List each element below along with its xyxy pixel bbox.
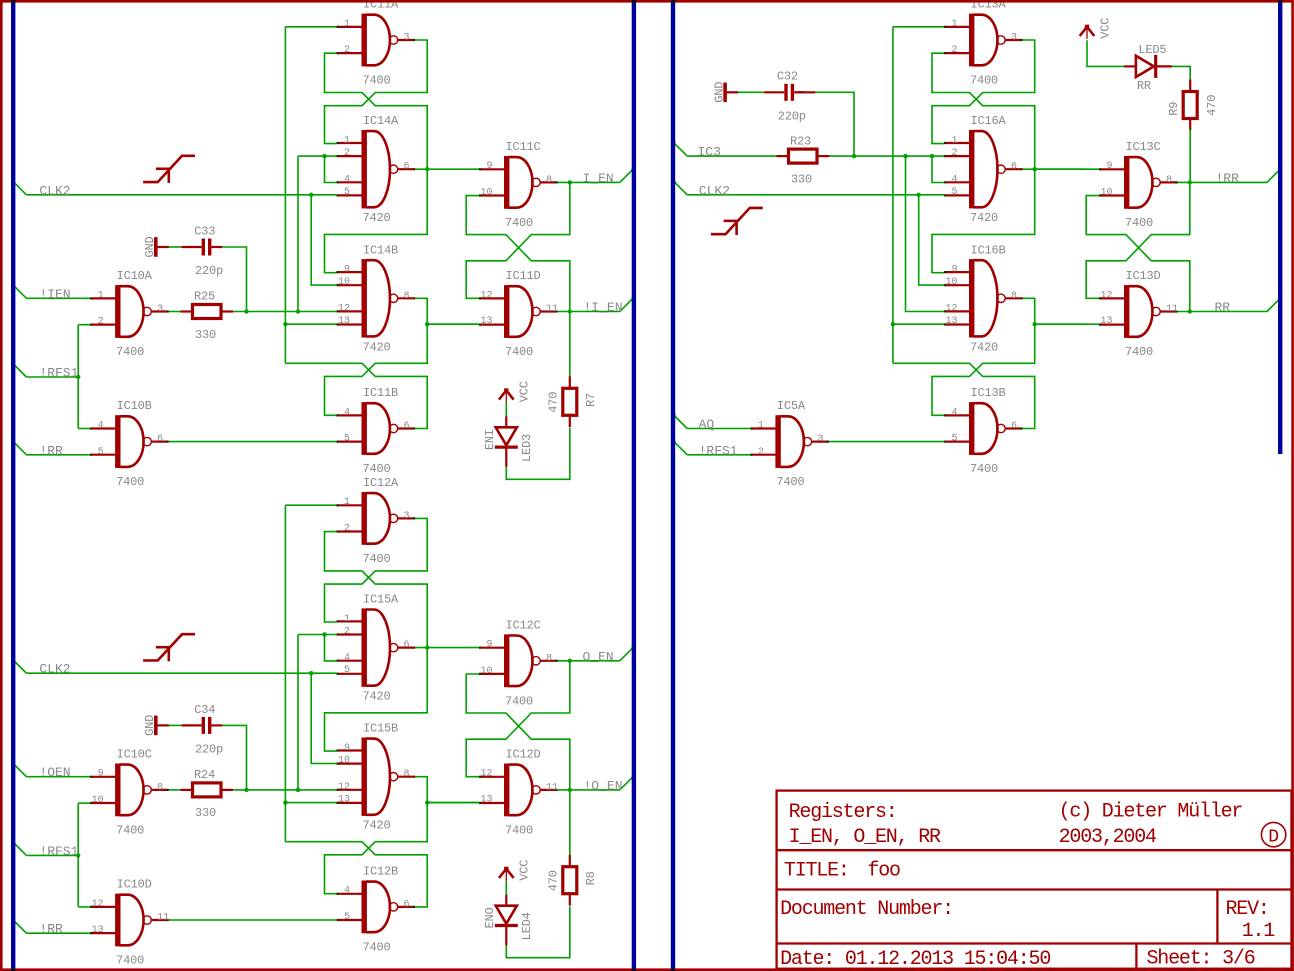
wire net !O_EN xyxy=(557,789,620,791)
svg-text:5: 5 xyxy=(344,665,350,676)
wire net !RFS1 right xyxy=(687,454,751,456)
svg-text:13: 13 xyxy=(480,795,492,806)
svg-text:IC16A: IC16A xyxy=(971,114,1007,128)
svg-text:IC12A: IC12A xyxy=(363,476,399,490)
wire net CLK2 xyxy=(26,672,336,674)
junction xyxy=(76,375,80,379)
svg-text:7420: 7420 xyxy=(363,690,391,704)
junction xyxy=(283,800,287,804)
svg-text:!RR: !RR xyxy=(39,443,63,458)
svg-text:IC10B: IC10B xyxy=(117,399,152,413)
junction xyxy=(568,788,572,792)
junction xyxy=(930,154,934,158)
wire net IC3 xyxy=(687,155,776,157)
NAND gate IC12A xyxy=(337,492,416,545)
svg-text:ENI: ENI xyxy=(483,429,497,450)
svg-text:9: 9 xyxy=(486,640,492,651)
wire pin10 cross IC11C xyxy=(466,196,570,312)
svg-text:Sheet: 3/6: Sheet: 3/6 xyxy=(1147,947,1255,970)
junction xyxy=(903,154,907,158)
resistor R9 xyxy=(1183,80,1197,131)
junction xyxy=(1188,180,1192,184)
junction xyxy=(1188,309,1192,313)
resistor R7 xyxy=(563,376,577,427)
svg-text:4: 4 xyxy=(951,407,957,418)
svg-text:2: 2 xyxy=(758,447,764,458)
bus-frame overlaps xyxy=(11,0,15,2)
svg-text:IC5A: IC5A xyxy=(777,399,806,413)
svg-text:2: 2 xyxy=(344,524,350,535)
wire net !RR xyxy=(26,454,90,456)
wire cross X3 d xyxy=(325,324,428,415)
svg-text:IC12B: IC12B xyxy=(363,864,398,878)
svg-text:10: 10 xyxy=(338,277,350,288)
wire LED5 to R9 xyxy=(1172,66,1190,79)
wire C32 links xyxy=(738,91,770,93)
svg-text:5: 5 xyxy=(951,187,957,198)
capacitor C32 xyxy=(764,84,805,101)
svg-text:IC12C: IC12C xyxy=(506,618,541,632)
wire cross X1 a xyxy=(932,53,1035,169)
svg-text:9: 9 xyxy=(486,161,492,172)
bus stub CLK2 right xyxy=(674,182,687,195)
svg-text:11: 11 xyxy=(546,304,558,315)
wire out to R top xyxy=(569,312,571,377)
4-input NAND gate IC15B xyxy=(337,738,416,816)
svg-text:7400: 7400 xyxy=(505,823,533,837)
svg-text:2: 2 xyxy=(344,627,350,638)
wire cross X3 c xyxy=(285,842,427,907)
svg-text:11: 11 xyxy=(546,782,558,793)
svg-text:9: 9 xyxy=(344,743,350,754)
wire clk to pin10 xyxy=(311,195,337,285)
wire net AQ xyxy=(687,428,751,430)
junction xyxy=(76,853,80,857)
wire cross X1 b xyxy=(932,40,1035,144)
junction xyxy=(244,309,248,313)
wire cross X1 b xyxy=(325,518,428,622)
junction xyxy=(1033,322,1037,326)
svg-text:8: 8 xyxy=(546,175,552,186)
svg-text:220p: 220p xyxy=(195,743,223,757)
wire net CLK2 xyxy=(26,194,336,196)
svg-text:7400: 7400 xyxy=(1125,345,1153,359)
svg-text:7420: 7420 xyxy=(970,340,998,354)
svg-text:11: 11 xyxy=(157,913,169,924)
svg-text:1: 1 xyxy=(344,19,350,30)
svg-text:C33: C33 xyxy=(194,224,215,238)
svg-text:13: 13 xyxy=(338,316,350,327)
wire pin4 corner xyxy=(325,156,337,182)
clock edge symbol xyxy=(143,634,195,661)
junction xyxy=(568,659,572,663)
svg-text:D: D xyxy=(1268,827,1279,847)
clock edge symbol xyxy=(711,208,763,235)
wire pin4 corner xyxy=(325,635,337,661)
svg-text:220p: 220p xyxy=(195,264,223,278)
svg-text:IC16B: IC16B xyxy=(971,243,1006,257)
wire pin2 line xyxy=(298,155,337,157)
svg-text:7400: 7400 xyxy=(776,475,804,489)
svg-text:IC14A: IC14A xyxy=(363,114,399,128)
svg-text:4: 4 xyxy=(344,175,350,186)
wire VCC stem xyxy=(505,881,507,895)
svg-text:9: 9 xyxy=(344,265,350,276)
svg-text:I_EN: I_EN xyxy=(583,171,614,186)
svg-text:8: 8 xyxy=(1011,291,1017,302)
ground xyxy=(725,83,738,103)
wire cross X3 c xyxy=(285,363,427,428)
wire pin13 line IC12D xyxy=(427,802,479,804)
svg-text:7420: 7420 xyxy=(363,340,391,354)
junction CLK2 xyxy=(309,671,313,675)
svg-text:(c) Dieter Müller: (c) Dieter Müller xyxy=(1059,800,1243,823)
svg-text:GND: GND xyxy=(143,236,157,257)
bus stub !I_EN xyxy=(620,298,633,311)
svg-text:!IEN: !IEN xyxy=(39,287,70,302)
wire IC5A out xyxy=(828,441,944,443)
svg-text:VCC: VCC xyxy=(518,860,532,881)
wire node vertical to pin2 line xyxy=(297,156,299,311)
svg-text:10: 10 xyxy=(338,756,350,767)
wire pin9 line IC13C xyxy=(1035,168,1100,170)
NAND gate IC13C xyxy=(1099,156,1178,209)
wire node vertical to pin2 line xyxy=(297,635,299,790)
wire net !IEN xyxy=(26,297,90,299)
junction xyxy=(244,788,248,792)
svg-text:IC13D: IC13D xyxy=(1126,269,1161,283)
NAND gate IC12C xyxy=(479,634,558,687)
svg-text:I_EN, O_EN, RR: I_EN, O_EN, RR xyxy=(789,826,941,849)
wire net !RR xyxy=(1177,181,1267,183)
junction xyxy=(1033,167,1037,171)
svg-text:6: 6 xyxy=(404,162,410,173)
wire VCC stem xyxy=(505,402,507,416)
svg-text:RR: RR xyxy=(1215,300,1231,315)
svg-text:6: 6 xyxy=(404,640,410,651)
wire net I_EN xyxy=(557,181,620,183)
svg-text:IC13C: IC13C xyxy=(1126,140,1161,154)
ground xyxy=(156,716,169,736)
svg-text:Document Number:: Document Number: xyxy=(780,898,953,921)
svg-text:R9: R9 xyxy=(1167,102,1181,116)
bus stub !OEN xyxy=(13,764,26,777)
wire net !RR xyxy=(26,932,90,934)
svg-text:4: 4 xyxy=(344,886,350,897)
NAND gate IC13A xyxy=(944,14,1023,67)
svg-text:7400: 7400 xyxy=(970,74,998,88)
power VCC xyxy=(499,388,514,402)
bus stub IC3 xyxy=(674,143,687,156)
svg-text:!O_EN: !O_EN xyxy=(584,778,623,793)
wire loop to pin9 xyxy=(325,169,428,273)
svg-text:330: 330 xyxy=(195,328,216,342)
ground xyxy=(156,237,169,257)
4-input NAND gate IC15A xyxy=(337,608,416,686)
svg-text:12: 12 xyxy=(945,304,957,315)
svg-text:7400: 7400 xyxy=(116,823,144,837)
wire gate out to R xyxy=(168,311,180,313)
wire cross X1 a xyxy=(325,532,428,648)
svg-text:7420: 7420 xyxy=(970,211,998,225)
svg-text:3: 3 xyxy=(404,511,410,522)
wire net !OEN xyxy=(26,776,90,778)
resistor R24 xyxy=(180,783,233,797)
svg-text:7400: 7400 xyxy=(363,74,391,88)
svg-text:2: 2 xyxy=(344,45,350,56)
svg-text:3: 3 xyxy=(817,434,823,445)
wire pin13 line xyxy=(285,802,336,804)
svg-text:CLK2: CLK2 xyxy=(39,662,70,677)
wire cross X3 d xyxy=(932,324,1035,415)
junction xyxy=(322,632,326,636)
wire R9 to IRR line xyxy=(1189,129,1191,183)
svg-text:IC14B: IC14B xyxy=(363,243,398,257)
svg-text:7400: 7400 xyxy=(363,552,391,566)
svg-text:3: 3 xyxy=(404,33,410,44)
svg-text:11: 11 xyxy=(1166,304,1178,315)
LED LED5 xyxy=(1124,55,1172,78)
svg-text:!OEN: !OEN xyxy=(39,765,70,780)
wire R to node xyxy=(233,789,337,791)
wire pin4 corner xyxy=(932,156,944,182)
svg-text:1: 1 xyxy=(344,614,350,625)
svg-text:C32: C32 xyxy=(777,70,798,84)
svg-text:9: 9 xyxy=(1106,161,1112,172)
svg-text:5: 5 xyxy=(344,434,350,445)
svg-text:O_EN: O_EN xyxy=(583,649,614,664)
svg-text:IC3: IC3 xyxy=(698,145,721,160)
wire pin10 cross IC13C xyxy=(1086,196,1190,312)
svg-text:7400: 7400 xyxy=(116,475,144,489)
svg-text:6: 6 xyxy=(157,434,163,445)
bus stub !RR xyxy=(1267,169,1280,182)
wire cross X1 b xyxy=(325,40,428,144)
svg-text:12: 12 xyxy=(480,769,492,780)
svg-text:12: 12 xyxy=(480,290,492,301)
svg-text:13: 13 xyxy=(1100,316,1112,327)
svg-text:LED5: LED5 xyxy=(1138,43,1166,57)
wire loop to pin9 xyxy=(325,648,428,752)
svg-text:Registers:: Registers: xyxy=(789,801,897,824)
NAND gate IC10D xyxy=(90,894,169,947)
svg-text:R23: R23 xyxy=(790,134,811,148)
svg-text:3: 3 xyxy=(157,304,163,315)
resistor R8 xyxy=(563,855,577,906)
svg-text:1: 1 xyxy=(758,421,764,432)
NAND gate IC11D xyxy=(479,285,558,338)
NAND gate IC13B xyxy=(944,402,1023,455)
svg-text:!RR: !RR xyxy=(1216,171,1240,186)
svg-text:6: 6 xyxy=(1011,421,1017,432)
wire R to node xyxy=(233,311,337,313)
capacitor C33 xyxy=(182,239,223,256)
svg-text:TITLE:: TITLE: xyxy=(784,860,849,883)
junction xyxy=(891,322,895,326)
svg-text:foo: foo xyxy=(867,860,900,883)
wire pin13 line xyxy=(893,323,944,325)
svg-text:5: 5 xyxy=(98,447,104,458)
svg-text:5: 5 xyxy=(951,434,957,445)
svg-text:VCC: VCC xyxy=(1098,18,1112,39)
svg-text:330: 330 xyxy=(195,806,216,820)
svg-text:7400: 7400 xyxy=(505,216,533,230)
bus stub !O_EN xyxy=(620,777,633,790)
svg-text:AQ: AQ xyxy=(699,417,715,432)
svg-text:12: 12 xyxy=(338,304,350,315)
svg-text:470: 470 xyxy=(547,870,561,891)
svg-text:CLK2: CLK2 xyxy=(699,183,730,198)
bus line middle-right xyxy=(671,0,675,970)
wire pin1 loop IC11A xyxy=(285,26,336,28)
svg-text:ENO: ENO xyxy=(483,907,497,928)
svg-text:9: 9 xyxy=(951,265,957,276)
svg-text:1: 1 xyxy=(344,497,350,508)
svg-text:!RFS1: !RFS1 xyxy=(39,366,78,381)
wire node vert to pin12 xyxy=(906,156,945,311)
bus stub AQ xyxy=(674,415,687,428)
bus stub !RFS1 xyxy=(13,364,26,377)
wire out to R top xyxy=(569,790,571,855)
wire cap links xyxy=(169,246,182,248)
svg-text:R24: R24 xyxy=(194,768,215,782)
svg-text:13: 13 xyxy=(945,316,957,327)
svg-text:IC13B: IC13B xyxy=(971,386,1006,400)
wire pin12 cross IC13D xyxy=(1086,182,1190,298)
LED LED4 xyxy=(495,895,518,946)
bus line middle-left xyxy=(632,0,636,970)
wire VCC to LED5 xyxy=(1087,40,1124,66)
svg-text:5: 5 xyxy=(344,912,350,923)
wire net !RFS1 xyxy=(26,376,78,378)
svg-text:8: 8 xyxy=(157,782,163,793)
wire pin13 line IC11D xyxy=(427,323,479,325)
svg-text:IC15B: IC15B xyxy=(363,722,398,736)
svg-text:GND: GND xyxy=(143,715,157,736)
wire pin2 line xyxy=(298,634,337,636)
4-input NAND gate IC14A xyxy=(337,130,416,208)
NAND gate IC11A xyxy=(337,14,416,67)
svg-text:1: 1 xyxy=(98,290,104,301)
svg-text:470: 470 xyxy=(547,392,561,413)
svg-text:R8: R8 xyxy=(584,871,598,885)
svg-text:3: 3 xyxy=(1011,33,1017,44)
NAND gate IC10A xyxy=(90,285,169,338)
svg-text:10: 10 xyxy=(1100,188,1112,199)
svg-text:6: 6 xyxy=(1011,162,1017,173)
wire net RR xyxy=(1177,311,1267,313)
svg-text:8: 8 xyxy=(404,291,410,302)
bus stub !RFS1 right xyxy=(674,442,687,455)
bus stub !RR xyxy=(13,442,26,455)
svg-text:470: 470 xyxy=(1205,95,1219,116)
svg-text:!RFS1: !RFS1 xyxy=(699,443,738,458)
svg-text:8: 8 xyxy=(1166,175,1172,186)
wire R bottom loop to LED xyxy=(506,428,570,479)
NAND gate IC10B xyxy=(90,415,169,468)
junction xyxy=(425,167,429,171)
svg-text:13: 13 xyxy=(338,795,350,806)
bus stub !IEN xyxy=(13,285,26,298)
svg-text:6: 6 xyxy=(404,421,410,432)
wire out line IC15A xyxy=(414,647,479,649)
svg-text:7420: 7420 xyxy=(363,819,391,833)
wire out IC10B xyxy=(168,441,337,443)
NAND gate IC11B xyxy=(337,402,416,455)
svg-text:12: 12 xyxy=(338,782,350,793)
wire out corner IC14B xyxy=(414,298,479,324)
wire cross X1 a xyxy=(325,53,428,169)
svg-text:7400: 7400 xyxy=(116,954,144,968)
wire pin12 cross IC12D xyxy=(466,661,570,777)
svg-text:7400: 7400 xyxy=(1125,216,1153,230)
wire pin1 loop IC13A xyxy=(893,26,944,28)
svg-text:VCC: VCC xyxy=(518,381,532,402)
svg-text:7400: 7400 xyxy=(363,462,391,476)
svg-text:IC11D: IC11D xyxy=(506,269,541,283)
wire clk to pin10 right xyxy=(919,195,945,285)
svg-text:1: 1 xyxy=(951,19,957,30)
wire loop to pin9 xyxy=(932,169,1035,273)
wire pin12 cross IC11D xyxy=(466,182,570,298)
junction xyxy=(568,180,572,184)
svg-text:7420: 7420 xyxy=(363,211,391,225)
wire net !RFS1 xyxy=(26,854,78,856)
wire out corner IC15B xyxy=(414,777,479,803)
wire cross X3 d xyxy=(325,803,428,894)
wire out line IC14A xyxy=(414,168,479,170)
svg-text:IC10C: IC10C xyxy=(117,747,152,761)
svg-text:4: 4 xyxy=(344,653,350,664)
junction xyxy=(296,309,300,313)
svg-text:1: 1 xyxy=(951,136,957,147)
svg-text:GND: GND xyxy=(712,82,726,103)
wire cap links xyxy=(169,724,182,726)
svg-text:R25: R25 xyxy=(194,290,215,304)
svg-text:10: 10 xyxy=(92,795,104,806)
wire clk to pin10 xyxy=(311,673,337,763)
wire pin13 line xyxy=(285,323,336,325)
NAND gate IC12B xyxy=(337,881,416,934)
wire out IC10D xyxy=(168,919,337,921)
wire R bottom loop to LED xyxy=(506,906,570,957)
wire cross X3 c xyxy=(893,363,1035,428)
bus stub CLK2 xyxy=(13,182,26,195)
wire gate out to R xyxy=(168,789,180,791)
svg-text:LED3: LED3 xyxy=(520,434,534,462)
svg-text:8: 8 xyxy=(404,769,410,780)
svg-text:R7: R7 xyxy=(584,393,598,407)
svg-text:IC12D: IC12D xyxy=(506,747,541,761)
power VCC xyxy=(1080,25,1095,39)
svg-text:4: 4 xyxy=(98,421,104,432)
LED LED3 xyxy=(495,416,518,467)
4-input NAND gate IC16A xyxy=(944,130,1023,208)
junction xyxy=(425,645,429,649)
junction xyxy=(852,154,856,158)
wire out line IC16A xyxy=(1022,168,1087,170)
resistor R23 xyxy=(776,149,829,163)
wire R23 out node xyxy=(827,155,944,157)
svg-text:2: 2 xyxy=(98,317,104,328)
svg-text:4: 4 xyxy=(951,175,957,186)
svg-text:IC11C: IC11C xyxy=(506,140,541,154)
svg-text:1: 1 xyxy=(344,136,350,147)
title block xyxy=(776,791,1293,969)
bus stub !RFS1 xyxy=(13,842,26,855)
svg-text:12: 12 xyxy=(92,899,104,910)
bus stub !RR xyxy=(13,920,26,933)
